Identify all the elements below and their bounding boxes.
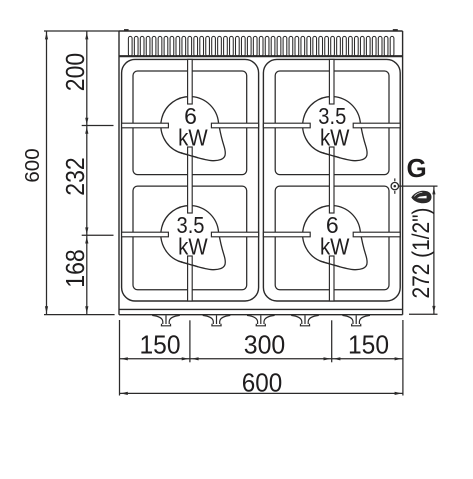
svg-text:kW: kW <box>178 125 208 151</box>
left inner dim line <box>86 31 88 315</box>
dim line 150/300/150 <box>120 358 403 360</box>
tail outline over bar, burner 3.5 <box>320 152 340 158</box>
svg-text:200: 200 <box>60 53 90 92</box>
dim 272 leader line <box>399 185 438 187</box>
svg-text:kW: kW <box>178 234 208 260</box>
right module outer frame <box>263 59 400 301</box>
foot at x=305 <box>291 315 319 326</box>
grate bars <box>122 59 401 301</box>
burner 6 kW at (190,126) <box>161 97 225 161</box>
tail outline over bar, burner 6 <box>320 261 340 267</box>
top edge bump left <box>124 29 129 31</box>
right-bottom pan support frame <box>275 186 389 290</box>
gas flame icon <box>411 191 431 204</box>
burner 3.5 kW at (332,126) <box>303 97 367 161</box>
dim 600 left line <box>46 31 48 315</box>
svg-text:kW: kW <box>320 234 350 260</box>
svg-text:G: G <box>407 153 427 183</box>
svg-text:168: 168 <box>60 249 90 288</box>
tick 200/232 <box>82 125 114 127</box>
svg-text:600: 600 <box>21 148 44 182</box>
svg-text:150: 150 <box>348 329 389 359</box>
svg-text:150: 150 <box>140 329 181 359</box>
tail outline over bar, burner 3.5 <box>178 261 198 267</box>
svg-text:kW: kW <box>320 125 350 151</box>
dim 272 line <box>433 186 435 314</box>
right-top pan support frame <box>275 71 389 175</box>
foot at x=166 <box>152 315 180 326</box>
cooktop body outline <box>119 31 403 315</box>
svg-text:300: 300 <box>244 330 286 360</box>
dim 272 bottom tick <box>409 313 438 315</box>
gas connection crosshair <box>391 182 398 189</box>
left module outer frame <box>122 59 259 301</box>
svg-text:272 (1/2"): 272 (1/2") <box>408 208 435 299</box>
left-bottom pan support frame <box>133 186 247 290</box>
tail outline over bar, burner 6 <box>178 152 198 158</box>
foot at x=356 <box>342 315 370 326</box>
foot at x=261 <box>247 315 275 326</box>
left ext line bottom <box>44 314 115 316</box>
vent ridge strip <box>128 36 394 56</box>
top edge bump right <box>393 29 398 31</box>
tick 232/168 <box>82 234 114 236</box>
vent strip bottom line <box>119 55 403 57</box>
left-top pan support frame <box>133 71 247 175</box>
svg-text:232: 232 <box>60 157 90 196</box>
dim line 600 bottom <box>120 392 403 394</box>
left ext line top <box>44 30 119 32</box>
burner 3.5 kW at (190,234) <box>161 206 225 270</box>
svg-text:600: 600 <box>242 367 283 397</box>
foot at x=216 <box>203 315 231 326</box>
burner 6 kW at (332,234) <box>303 206 367 270</box>
bottom ext lines <box>119 320 121 396</box>
